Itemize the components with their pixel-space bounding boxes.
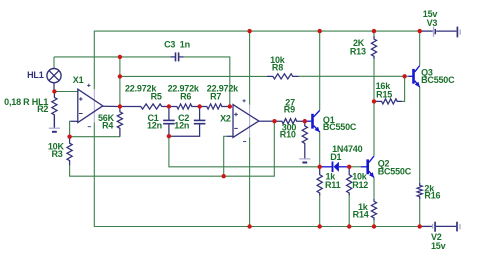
battery V2 <box>420 222 460 232</box>
label Q1 type <box>323 122 357 132</box>
label HL1 <box>27 70 44 80</box>
label R6 value <box>168 83 200 93</box>
svg-text:BC550C: BC550C <box>323 122 357 132</box>
node V3 on top rail <box>418 29 422 33</box>
wire Q1 emitter vertical <box>319 132 321 167</box>
svg-text:R8: R8 <box>272 63 283 73</box>
op-amp X2 <box>233 99 259 141</box>
label Q3 <box>421 67 433 77</box>
wire R15 right to Q3 base node <box>402 76 404 101</box>
label X2 <box>220 114 231 124</box>
resistor R12 <box>347 167 352 196</box>
label R9 <box>284 105 295 115</box>
wire C3 right to X2 + input <box>184 57 230 107</box>
label V2 <box>431 232 442 242</box>
svg-text:X1: X1 <box>73 75 84 85</box>
lamp HL1 <box>47 69 61 92</box>
node X2 - input on feedback line <box>222 174 226 178</box>
node R12 on bottom rail <box>347 224 351 228</box>
label R8 value <box>270 55 286 65</box>
svg-text:X2: X2 <box>220 114 231 124</box>
label R15 <box>376 89 392 99</box>
transistor Q3 <box>408 66 420 88</box>
label C2 value <box>174 120 189 130</box>
svg-text:C3 1n: C3 1n <box>164 40 190 50</box>
resistor R7 <box>200 104 230 109</box>
label R10 <box>280 129 296 139</box>
node R11 on bottom rail <box>318 224 322 228</box>
op-amp X1 <box>78 84 103 127</box>
svg-text:R11: R11 <box>325 180 341 190</box>
label R16 <box>424 191 440 201</box>
wire C1 C2 bottom to AGC line <box>169 136 320 167</box>
capacitor C1 <box>163 107 175 137</box>
node lamp bottom - R2 - X1 + <box>52 89 56 93</box>
wire R12 bottom <box>348 196 350 227</box>
diode D1 1N4740 <box>320 162 350 173</box>
svg-text:D1: D1 <box>330 152 341 162</box>
svg-text:R13: R13 <box>350 47 366 57</box>
wire R4 bottom to R3 top <box>70 136 120 138</box>
wire X1 output vertical <box>119 57 121 107</box>
label 0,18 R HL1 <box>4 97 48 107</box>
svg-text:R14: R14 <box>353 210 369 220</box>
svg-text:BC550C: BC550C <box>378 166 412 176</box>
resistor R6 <box>169 104 200 109</box>
node lamp - X1 output top <box>118 55 122 59</box>
label R3 <box>51 149 62 159</box>
svg-text:R7: R7 <box>210 91 221 101</box>
resistor R8 <box>267 74 299 79</box>
label R13 value <box>353 38 365 48</box>
ground below R10 <box>299 146 310 163</box>
node D1 - R12 - Q2 base <box>347 165 351 169</box>
node C1 C2 bottom <box>167 134 171 138</box>
svg-text:R15: R15 <box>376 89 392 99</box>
node R8 tap <box>118 74 122 78</box>
resistor R15 <box>374 99 402 104</box>
svg-text:R5: R5 <box>151 91 162 101</box>
resistor R13 <box>371 36 376 59</box>
label R14 value <box>358 202 369 212</box>
resistor R11 <box>317 167 322 196</box>
label R9 value <box>285 98 295 108</box>
wire R3 bottom to X2 - line <box>70 121 275 176</box>
wire X1 output to node <box>103 105 120 107</box>
op-amp X1 inverting input stub <box>70 120 78 122</box>
wire Q3 base <box>405 75 409 77</box>
transistor Q2 <box>361 156 374 178</box>
wire lamp top vertical <box>53 57 55 69</box>
wire X2 output to R9 <box>259 120 275 122</box>
node X1 output <box>118 104 122 108</box>
node R6-R7 C2 <box>197 104 201 108</box>
battery V3 <box>420 27 461 38</box>
label V3 <box>427 18 438 28</box>
node V2 on bottom rail <box>418 224 422 228</box>
node X2 V- on bottom rail <box>247 224 251 228</box>
wire +15v top rail <box>94 30 419 32</box>
wire X1 - input feedback <box>69 121 72 136</box>
svg-text:R10: R10 <box>280 129 296 139</box>
label 10K R3 value <box>48 142 65 152</box>
wire R13 top <box>373 31 375 36</box>
wire X2 supply upper segment <box>249 31 251 105</box>
svg-text:HL1: HL1 <box>27 70 44 80</box>
node R13 on top rail <box>372 29 376 33</box>
label R11 <box>325 180 341 190</box>
label R14 <box>353 210 369 220</box>
wire lamp top to C3 node horizontal <box>54 56 120 58</box>
label R12 value <box>352 172 368 182</box>
wire node to R8 horizontal <box>120 75 267 77</box>
label R7 <box>210 91 221 101</box>
svg-text:BC550C: BC550C <box>421 75 455 85</box>
label 56K R4 value <box>98 113 115 123</box>
label Q1 <box>323 115 335 125</box>
transistor Q1 <box>313 110 320 132</box>
node R5-R6 C1 <box>167 104 171 108</box>
label R5 value <box>125 83 157 93</box>
resistor R4 <box>117 107 122 137</box>
wire X2 - input down <box>224 136 227 176</box>
label R16 value <box>424 184 435 194</box>
wire R11 bottom <box>319 196 321 227</box>
label R2 <box>37 104 48 114</box>
resistor R2 <box>52 94 57 128</box>
svg-text:R3: R3 <box>51 149 62 159</box>
wire Q2 emitter to R14 <box>373 178 375 199</box>
node R14 on bottom rail <box>372 224 376 228</box>
node R3 top - X1 - input <box>67 135 71 139</box>
op-amp X2 inverting input stub <box>227 135 233 137</box>
resistor R9 <box>275 119 305 124</box>
wire Q1 collector vertical <box>319 31 321 110</box>
label C1 <box>147 113 158 123</box>
ground below R2 <box>49 115 60 132</box>
wire Q1 base from R9 node <box>305 120 312 122</box>
wire Q3 collector vertical <box>419 31 421 65</box>
wire X1 supply upper segment <box>93 31 95 90</box>
resistor R14 <box>371 199 376 221</box>
wire R8 to Q3 base horizontal <box>299 75 405 77</box>
label Q2 <box>378 159 390 169</box>
resistor R3 <box>67 137 72 166</box>
wire R16 bottom <box>419 199 421 226</box>
label D1 type <box>332 144 363 154</box>
wire Q3 emitter to R16 <box>419 87 421 183</box>
node R7 - X2 + input <box>228 104 232 108</box>
node X2 output <box>272 119 276 123</box>
label C3 value <box>164 40 190 50</box>
svg-text:R4: R4 <box>102 121 113 131</box>
label X1 <box>73 75 84 85</box>
svg-text:R6: R6 <box>180 91 191 101</box>
wire Q2 base <box>349 166 361 168</box>
svg-text:R9: R9 <box>284 105 295 115</box>
wire Q2 collector vertical <box>373 101 375 155</box>
label R4 <box>102 121 113 131</box>
label R15 value <box>376 81 392 91</box>
label R12 <box>352 180 368 190</box>
svg-text:12n: 12n <box>147 120 162 130</box>
label R5 <box>151 91 162 101</box>
wire X2 supply lower segment <box>249 137 251 226</box>
resistor R10 <box>302 121 307 145</box>
capacitor C3 <box>170 52 183 61</box>
label Q2 type <box>378 166 412 176</box>
svg-text:V3: V3 <box>427 18 438 28</box>
label R10 value <box>282 123 297 133</box>
label C1 value <box>147 120 162 130</box>
node R9 - R10 - Q1 base <box>303 119 307 123</box>
label R8 <box>272 63 283 73</box>
label R7 value <box>207 83 239 93</box>
label R13 <box>350 47 366 57</box>
wire R14 bottom <box>373 220 375 226</box>
node X2 V+ on top rail <box>247 29 251 33</box>
label Q3 type <box>421 75 455 85</box>
resistor R16 <box>417 183 422 199</box>
label D1 <box>330 152 341 162</box>
svg-text:R16: R16 <box>424 191 440 201</box>
node R13 - R15 - Q2 collector <box>372 99 376 103</box>
wire R13 bottom to node <box>373 59 375 101</box>
wire X1 supply lower segment <box>93 123 95 227</box>
label R6 <box>180 91 191 101</box>
label 15v V3 <box>423 9 438 19</box>
capacitor C2 <box>169 107 206 137</box>
wire C3 left from node <box>120 56 170 58</box>
svg-text:R12: R12 <box>352 180 368 190</box>
wire -15v bottom rail <box>94 226 420 228</box>
label C2 <box>178 113 189 123</box>
svg-text:R2: R2 <box>37 104 48 114</box>
node Q1 collector on top rail <box>318 29 322 33</box>
wire X1 + input <box>54 91 77 93</box>
node R15 - Q3 base <box>402 74 406 78</box>
label V2 value <box>431 241 446 251</box>
label R11 value <box>326 172 337 182</box>
resistor R5 <box>120 104 169 109</box>
svg-text:15v: 15v <box>431 241 446 251</box>
svg-text:12n: 12n <box>174 120 189 130</box>
node Q1 emitter - D1 - R11 <box>318 165 322 169</box>
